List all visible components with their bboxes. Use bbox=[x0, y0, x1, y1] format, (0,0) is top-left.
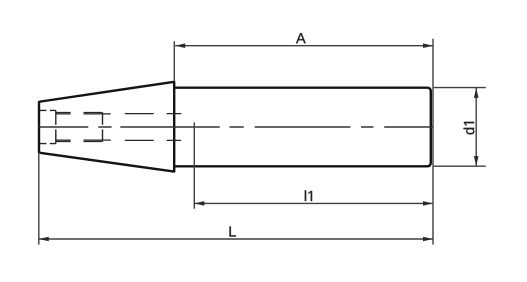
hidden line: lower thread major bbox=[56, 141, 102, 143]
extension line left of L bbox=[38, 152, 40, 244]
taper pin cone section outline bbox=[39, 82, 174, 172]
extension line d1 top bbox=[434, 87, 486, 89]
dimension line A bbox=[175, 43, 433, 48]
hidden line: thread end vertical bbox=[102, 112, 104, 142]
hidden line: upper hole minor bbox=[56, 113, 181, 115]
extension line right (shared by A, l1, L) bbox=[432, 39, 434, 245]
label L bbox=[230, 226, 236, 236]
hidden line: lower hole minor bbox=[56, 139, 181, 141]
label d1 bbox=[464, 122, 475, 134]
dimension line L bbox=[39, 237, 433, 242]
extension line d1 bottom bbox=[434, 165, 486, 167]
hidden line: upper counterbore bbox=[40, 109, 56, 111]
hidden line: upper thread major bbox=[56, 112, 102, 114]
extension line left of l1 bbox=[193, 122, 195, 208]
dimension line d1 bbox=[474, 88, 479, 166]
hidden line: counterbore step vertical bbox=[55, 110, 57, 143]
dimension line l1 bbox=[194, 201, 433, 206]
label A bbox=[296, 33, 306, 43]
extension line left of A (cone/cylinder junction) bbox=[173, 41, 175, 81]
cylindrical body outline bbox=[174, 88, 431, 167]
label l1 bbox=[305, 190, 312, 201]
hidden line: lower counterbore bbox=[40, 143, 56, 145]
center line bbox=[39, 126, 433, 128]
